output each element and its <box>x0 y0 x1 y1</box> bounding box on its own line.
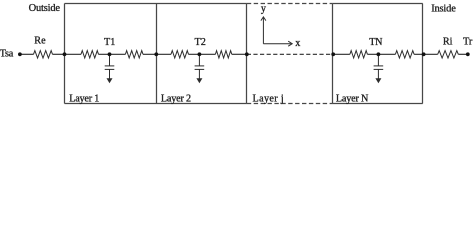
svg-text:Tr: Tr <box>463 37 473 48</box>
node T1 <box>108 52 112 56</box>
coordinate axis y <box>261 17 292 46</box>
node TN <box>377 52 381 56</box>
capacitor C1 at node T1 <box>105 54 115 78</box>
resistor R1b <box>125 51 143 58</box>
resistor R2b <box>215 51 231 58</box>
wire dashed through Layer j <box>247 53 333 55</box>
junction at Layer 2/j boundary <box>245 52 249 56</box>
capacitor C2 at node T2 <box>195 54 205 78</box>
svg-text:Re: Re <box>34 36 46 47</box>
resistor R2a <box>171 51 189 58</box>
svg-text:T2: T2 <box>195 37 206 48</box>
layer boundary Layer2/Layerj <box>246 4 248 104</box>
resistor R1a <box>81 51 99 58</box>
wire RNa to RNb through node TN <box>367 53 395 55</box>
resistor Ri <box>438 51 459 58</box>
wire R1b to Layer 2 and R2a <box>143 53 171 55</box>
wire Tsa to Re <box>20 53 34 55</box>
svg-text:Layer 2: Layer 2 <box>161 94 191 105</box>
ground arrow CN <box>375 78 381 83</box>
top border dashed over Layer j <box>247 3 333 5</box>
wire Re to Layer 1 edge <box>53 53 65 55</box>
bottom border solid under Layers 1-2 <box>65 103 247 105</box>
node Tr <box>466 52 470 56</box>
bottom border dashed under Layer j <box>247 103 333 105</box>
wire Ri to Tr <box>458 53 468 55</box>
layer box right edge (Layer N) <box>422 4 424 104</box>
top border solid over Layer N <box>333 3 423 5</box>
wire RNb through Layer N edge to Ri <box>414 53 438 55</box>
svg-text:T1: T1 <box>104 37 115 48</box>
svg-text:Layer j: Layer j <box>253 94 285 105</box>
junction at Layer N right edge <box>422 52 426 56</box>
svg-text:Outside: Outside <box>29 3 61 14</box>
junction at Layer N left edge <box>331 52 335 56</box>
wire R2a to R2b through node T2 <box>189 53 216 55</box>
svg-text:Layer N: Layer N <box>336 94 369 105</box>
svg-text:x: x <box>295 38 300 49</box>
coordinate axis x <box>263 43 291 45</box>
junction at Layer 1 left edge <box>63 52 67 56</box>
svg-text:Tsa: Tsa <box>0 49 14 60</box>
capacitor CN at node TN <box>374 54 384 78</box>
ground arrow C2 <box>196 78 202 83</box>
ground arrow C1 <box>107 78 113 83</box>
wire R2b to Layer j boundary <box>232 53 247 55</box>
layer box left edge (Layer 1) <box>64 4 66 104</box>
wire R1a to R1b through node T1 <box>99 53 126 55</box>
svg-text:Ri: Ri <box>443 37 453 48</box>
top border solid over Layers 1-2 <box>65 3 247 5</box>
resistor RNb <box>395 51 414 58</box>
layer boundary Layerj/LayerN <box>332 4 334 104</box>
node Tsa <box>18 52 22 56</box>
svg-text:TN: TN <box>369 37 383 48</box>
svg-text:Layer 1: Layer 1 <box>69 94 99 105</box>
layer boundary Layer1/Layer2 <box>156 4 158 104</box>
svg-text:Inside: Inside <box>431 3 456 14</box>
bottom border solid under Layer N <box>333 103 423 105</box>
junction at Layer 1/2 boundary <box>154 52 158 56</box>
node T2 <box>198 52 202 56</box>
resistor RNa <box>350 51 368 58</box>
wire Layer N edge to RNa <box>333 53 350 55</box>
resistor Re <box>34 51 53 58</box>
wire Layer 1 edge to R1a <box>65 53 82 55</box>
